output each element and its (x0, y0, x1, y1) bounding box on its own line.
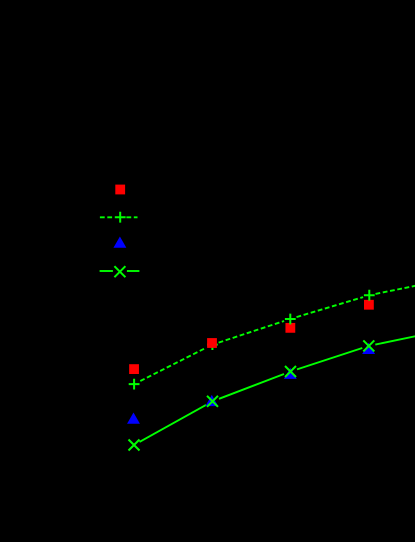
legend solid line sample left part (100, 270, 113, 272)
red square point 1 (129, 364, 139, 374)
legend red square row (115, 185, 125, 195)
legend X marker (114, 266, 125, 277)
green plus marker point 3 (285, 314, 296, 325)
solid green line segment 1 (between X1 and X2) (140, 405, 207, 442)
red square point 2 (207, 338, 217, 348)
dashed green line segment 3 (between P3 and P4) (297, 297, 364, 317)
red square point 4 (364, 300, 374, 310)
legend blue triangle (113, 237, 126, 248)
green X marker point 2 (207, 396, 218, 407)
blue triangle point 1 (127, 413, 140, 424)
solid green line segment 4 (from X4 to right edge) (375, 336, 415, 344)
blue triangle point 3 (284, 368, 297, 379)
blue triangle point 4 (362, 343, 375, 354)
legend dashed line sample left part (100, 216, 114, 218)
legend plus marker (115, 212, 126, 223)
green plus marker point 4 (364, 290, 375, 301)
green plus marker point 1 (129, 379, 140, 390)
green X marker point 1 (129, 440, 140, 451)
green X marker point 3 (285, 366, 296, 377)
legend dashed line sample right part (126, 216, 137, 218)
blue triangle point 2 (205, 395, 218, 406)
dashed green line segment 2 (between P2 and P3) (219, 321, 285, 343)
dashed green line segment 4 (from P4 to right edge) (376, 286, 415, 294)
green X marker point 4 (363, 340, 374, 351)
legend solid line sample right part (127, 270, 139, 272)
green plus marker point 2 (207, 339, 218, 350)
solid green line segment 2 (between X2 and X3) (219, 374, 284, 399)
red square point 3 (285, 323, 295, 333)
solid green line segment 3 (between X3 and X4) (297, 348, 362, 369)
dashed green line segment 1 (between P1 and P2) (140, 348, 206, 381)
